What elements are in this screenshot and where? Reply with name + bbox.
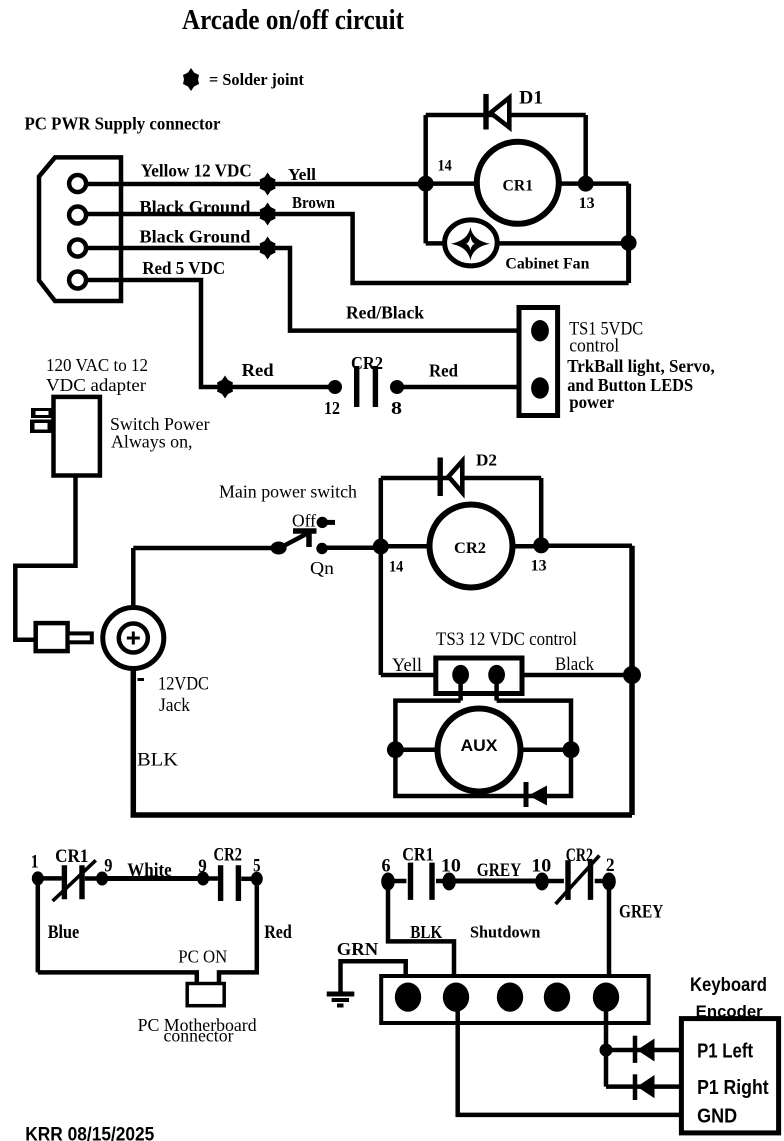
strip terminal 5: [593, 983, 619, 1012]
pin 4: [69, 272, 86, 289]
terminal strip TS3: [436, 658, 522, 694]
junction P1 left: [600, 1044, 613, 1057]
svg-text:Red: Red: [264, 922, 292, 943]
svg-text:120 VAC to 12: 120 VAC to 12: [46, 355, 148, 375]
wire jack to switch pivot: [133, 546, 278, 551]
wire TS3 right terminal drop: [494, 675, 499, 701]
wire node13b right and down to bottom rail: [541, 544, 632, 549]
DC plug barrel: [68, 633, 92, 642]
contact CR2 NO (9-5): [221, 865, 239, 901]
svg-text:D2: D2: [476, 451, 497, 470]
wire blue left vertical: [36, 878, 41, 972]
node 14 (CR1): [418, 176, 434, 192]
wire jack top to switch: [131, 548, 136, 624]
solder joint legend symbol: [183, 68, 199, 91]
svg-text:Black Ground: Black Ground: [139, 227, 250, 247]
pin 3: [69, 240, 86, 257]
wire terminal2 down to GND: [458, 1010, 683, 1115]
svg-text:CR1: CR1: [402, 845, 434, 866]
node 10 b: [535, 873, 549, 891]
svg-text:Jack: Jack: [159, 695, 190, 716]
contact CR1 NC (1-9): [64, 865, 82, 899]
svg-text:BLK: BLK: [137, 750, 178, 771]
svg-text:CR2: CR2: [214, 844, 243, 865]
adapter plug prong upper: [31, 408, 54, 418]
svg-text:1: 1: [31, 852, 39, 873]
svg-text:14: 14: [438, 157, 453, 174]
node 5: [251, 872, 263, 886]
solder joint on yellow wire: [260, 173, 276, 196]
node AUX left: [387, 741, 404, 758]
wire node14b to node13b: [381, 544, 541, 549]
strip terminal 4: [544, 983, 570, 1012]
diode D4 P1 Left: [635, 1036, 655, 1063]
svg-text:Red: Red: [429, 361, 458, 381]
node 10: [442, 873, 456, 891]
relay coil CR2: [430, 505, 513, 588]
wire switch to node 14: [322, 546, 381, 551]
wire contact to node9: [85, 876, 102, 881]
diode D2: [440, 458, 462, 497]
solder joint on brown wire: [260, 203, 276, 226]
svg-text:TrkBall light, Servo,: TrkBall light, Servo,: [567, 356, 715, 376]
svg-text:Red 5 VDC: Red 5 VDC: [142, 258, 225, 278]
node 1: [32, 871, 44, 885]
solder joint on pin3 wire: [260, 237, 276, 260]
jack minus mark: [138, 678, 145, 681]
svg-text:Yell: Yell: [392, 655, 422, 676]
wire P1 Right row: [606, 1084, 683, 1089]
svg-text:Red/Black: Red/Black: [346, 303, 424, 323]
svg-text:6: 6: [382, 856, 391, 877]
node 13 (CR1): [578, 176, 594, 192]
wire contact to node5: [241, 877, 257, 882]
svg-text:Keyboard: Keyboard: [690, 975, 767, 996]
contact CR1 NO (6-10): [411, 863, 433, 900]
terminal strip TS1: [519, 308, 558, 416]
svg-text:8: 8: [391, 398, 402, 418]
svg-text:CR2: CR2: [454, 540, 486, 557]
node 13 (CR2): [533, 537, 549, 553]
svg-text:12VDC: 12VDC: [158, 674, 209, 695]
svg-text:P1 Right: P1 Right: [697, 1076, 769, 1099]
wire node14 to node13 horizontal: [426, 181, 586, 186]
CR1 NC slash: [53, 860, 96, 901]
svg-text:Blue: Blue: [48, 922, 79, 943]
wire terminal5 down to P1 wires: [604, 1010, 609, 1087]
svg-text:Red: Red: [242, 360, 274, 380]
TS1 terminal B: [531, 377, 549, 398]
svg-text:GREY: GREY: [619, 902, 664, 923]
wire node6 down BLK to terminal 2: [388, 881, 454, 997]
wire yellow 12VDC pin1 to node 14: [86, 182, 426, 187]
CR1 coil loop top wire: [426, 113, 586, 118]
diode D5 P1 Right: [635, 1074, 655, 1100]
svg-text:PC PWR Supply connector: PC PWR Supply connector: [25, 114, 221, 134]
wire node10b to CR2 contact br: [542, 879, 564, 884]
wire black ground pin3 red/black to TS1: [86, 248, 519, 331]
Off terminal stub: [327, 520, 335, 525]
AC adapter PS1: [54, 397, 100, 476]
keyboard encoder box: [681, 1019, 778, 1133]
svg-text:9: 9: [198, 856, 207, 877]
svg-text:9: 9: [104, 855, 112, 876]
PC power supply connector J1: [39, 157, 121, 301]
svg-text:Black: Black: [555, 654, 594, 675]
switch arm arrowhead: [293, 531, 317, 547]
svg-text:BLK: BLK: [410, 922, 442, 942]
switch SW1 pivot: [271, 542, 287, 555]
wire AUX frame: [395, 701, 571, 796]
wire contact to node2: [595, 879, 609, 884]
svg-text:CR2: CR2: [351, 353, 383, 373]
wire jack bottom to bottom rail: [131, 669, 137, 816]
wire red 5VDC pin4 to CR2 contact: [86, 280, 335, 387]
svg-text:GRN: GRN: [337, 939, 378, 959]
svg-text:P1 Left: P1 Left: [697, 1040, 753, 1063]
wire grey node10 to node10b: [449, 879, 542, 884]
node 6: [381, 873, 395, 891]
svg-text:Main power switch: Main power switch: [219, 482, 357, 502]
wire Yell to TS3: [381, 673, 436, 678]
wire left vertical node14 to fan: [423, 115, 428, 243]
relay coil CR1: [477, 142, 559, 224]
diode D1: [486, 94, 509, 130]
svg-text:Black Ground: Black Ground: [139, 197, 250, 217]
svg-text:KRR 08/15/2025: KRR 08/15/2025: [25, 1125, 154, 1141]
strip terminal 3: [497, 983, 523, 1012]
cabinet fan M1: [445, 220, 498, 266]
svg-text:Brown: Brown: [292, 193, 335, 212]
wire adapter cord: [15, 476, 75, 640]
wire right vertical to node13: [583, 115, 588, 184]
svg-text:13: 13: [531, 558, 547, 575]
wire left vertical node14b down to Yell: [379, 478, 384, 675]
svg-text:Off: Off: [292, 511, 316, 531]
svg-text:Yellow 12 VDC: Yellow 12 VDC: [141, 161, 252, 181]
wire GRN ground to terminal 1: [341, 961, 406, 997]
svg-text:10: 10: [531, 856, 551, 877]
PC motherboard connector: [187, 984, 224, 1006]
node 8: [390, 380, 404, 394]
svg-text:10: 10: [441, 856, 461, 877]
wire node6 to CR1 contact br: [388, 879, 406, 884]
wire blue bottom to PC connector: [38, 972, 197, 983]
switch On terminal: [316, 543, 327, 554]
wire black ground pin2 brown: [86, 214, 629, 283]
svg-text:Arcade on/off circuit: Arcade on/off circuit: [182, 5, 405, 36]
contact CR2 pins 12-8: [357, 366, 376, 407]
bottom rail wire: [131, 812, 633, 818]
svg-text:power: power: [569, 392, 614, 412]
svg-text:connector: connector: [164, 1026, 234, 1046]
svg-text:control: control: [569, 336, 619, 357]
svg-text:13: 13: [579, 195, 595, 212]
wire P1 Left row: [606, 1048, 683, 1053]
svg-text:White: White: [127, 860, 171, 881]
wire TS3 left terminal drop: [458, 675, 463, 701]
svg-text:= Solder joint: = Solder joint: [209, 70, 304, 89]
svg-text:14: 14: [389, 559, 404, 576]
svg-text:Encoder: Encoder: [696, 1003, 764, 1021]
wire node13 right and down: [586, 181, 629, 186]
shutdown terminal strip: [381, 976, 648, 1023]
strip terminal 2: [443, 983, 469, 1012]
svg-text:TS3 12 VDC control: TS3 12 VDC control: [436, 629, 577, 650]
svg-text:PC ON: PC ON: [178, 947, 227, 967]
12VDC jack J2: [103, 608, 164, 669]
svg-text:5: 5: [253, 855, 260, 876]
node 12: [328, 380, 342, 394]
TS1 terminal A: [531, 320, 549, 341]
svg-text:GREY: GREY: [477, 860, 522, 881]
pin 1: [69, 175, 86, 192]
contact CR2 NC (10-2): [568, 860, 591, 900]
wire AUX row: [395, 747, 571, 752]
wire white node9 to node9b: [102, 876, 203, 881]
node 14 (CR2): [373, 539, 389, 555]
wire node1 to CR1 contact: [38, 876, 62, 881]
svg-text:GND: GND: [697, 1105, 737, 1128]
CR2 NC slash: [556, 856, 600, 905]
svg-text:Qn: Qn: [310, 558, 334, 578]
strip terminal 1: [395, 983, 421, 1012]
switch Off terminal: [317, 517, 328, 528]
wire node8 to TS1: [397, 385, 519, 390]
wire right vertical to node13b: [539, 478, 544, 545]
wire node2 down to terminal 5: [607, 881, 612, 997]
CR2 coil loop top wire: [381, 476, 541, 481]
node AUX right: [563, 741, 580, 758]
svg-text:2: 2: [606, 855, 615, 876]
adapter plug prong lower: [30, 420, 54, 434]
wire Black TS3 to junction: [522, 673, 632, 678]
svg-text:Cabinet Fan: Cabinet Fan: [505, 256, 589, 273]
svg-text:CR1: CR1: [503, 178, 534, 195]
svg-text:VDC adapter: VDC adapter: [46, 375, 146, 395]
diode D3 on AUX bottom: [526, 782, 547, 807]
junction on right vertical: [621, 235, 637, 251]
node 9 b: [197, 872, 209, 886]
ground symbol: [327, 994, 355, 1006]
svg-text:Always on,: Always on,: [111, 432, 193, 452]
svg-text:D1: D1: [519, 88, 543, 109]
node 2: [602, 873, 616, 891]
node 9: [96, 872, 108, 886]
wire fan row: [426, 241, 629, 246]
pin 2: [69, 207, 86, 224]
svg-text:Shutdown: Shutdown: [470, 923, 541, 942]
svg-text:12: 12: [324, 398, 340, 418]
svg-text:Yell: Yell: [288, 165, 316, 184]
wire node9b to CR2 contact: [203, 876, 218, 881]
svg-text:CR2: CR2: [566, 845, 593, 866]
junction at TS3 black wire: [623, 666, 641, 684]
solder joint on red wire: [217, 376, 233, 399]
svg-text:CR1: CR1: [55, 846, 88, 867]
wire red right vertical to PC connector: [219, 879, 257, 984]
svg-text:AUX: AUX: [461, 736, 499, 755]
TS3 terminal left: [452, 665, 469, 685]
wire contact to node10: [436, 879, 449, 884]
aux relay AUX: [438, 709, 521, 792]
DC plug body: [36, 623, 68, 651]
TS3 terminal right: [488, 665, 505, 685]
switch arm: [276, 532, 310, 550]
